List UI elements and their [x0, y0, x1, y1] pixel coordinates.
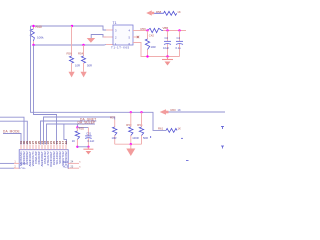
svg-text:10uF: 10uF — [163, 46, 169, 50]
node junction bus2 x83.5 — [82, 44, 84, 46]
svg-text:R61: R61 — [158, 127, 164, 131]
wire T1 pin4 stub — [133, 30, 148, 32]
wire T1 pin6 route down — [133, 43, 180, 57]
power arrow below R56 — [69, 72, 75, 78]
IC pin names vertical — [19, 151, 68, 167]
wire left edge W4 — [0, 117, 24, 144]
svg-text:50R: 50R — [143, 136, 148, 140]
wire T1 pin2 net with power arrow — [91, 35, 113, 39]
resistor R40 — [30, 25, 44, 45]
svg-text:1K: 1K — [72, 139, 75, 143]
svg-text:R55: R55 — [79, 126, 85, 130]
node junction C4 top — [178, 29, 180, 31]
resistor R57 bottom-left — [110, 116, 117, 145]
resistor R54b — [137, 112, 148, 144]
wire R55-C31 bottom — [77, 146, 88, 148]
stray mark 2 — [181, 137, 183, 139]
transformer T1 — [111, 21, 133, 50]
net label DA_MODE — [3, 129, 21, 144]
svg-text:100k: 100k — [37, 36, 44, 40]
power arrow below R54 — [81, 72, 87, 78]
wire A from IC pin to R57 — [44, 117, 115, 145]
ground symbol — [162, 57, 173, 66]
node junction R40 top — [32, 25, 34, 27]
wire top bus1 — [31, 26, 107, 30]
IC top pin numbers — [19, 141, 68, 144]
wire left edge W5 — [0, 121, 27, 144]
wire T1 pin5 stub with no-connect — [133, 36, 138, 38]
svg-text:R54: R54 — [78, 52, 84, 56]
node junction R55 bottom — [76, 146, 78, 148]
svg-text:10R: 10R — [112, 136, 117, 140]
power arrow down — [126, 144, 135, 156]
capacitor C31 — [85, 128, 94, 147]
svg-text:C42: C42 — [149, 34, 155, 38]
IC right pin NC3 — [63, 165, 82, 169]
wire bottom bus of three resistors — [115, 143, 142, 145]
svg-text:100R: 100R — [132, 136, 138, 140]
wire branch to IC pin16 staircase — [64, 124, 67, 145]
capacitor C2 — [163, 31, 171, 57]
svg-text:0.1uF: 0.1uF — [87, 139, 94, 143]
svg-text:NC4: NC4 — [63, 160, 69, 164]
svg-text:NC3: NC3 — [63, 165, 69, 169]
node junction R42 bottom — [146, 55, 148, 57]
wire T1 pin3 stub — [106, 29, 113, 31]
svg-text:R40: R40 — [36, 25, 42, 29]
resistor R54 — [78, 52, 92, 72]
node junction R55 top — [76, 126, 78, 128]
resistor R55 — [72, 126, 85, 147]
svg-text:1K: 1K — [177, 10, 181, 14]
svg-text:T1-1T-X65: T1-1T-X65 — [111, 46, 130, 50]
net label DA_SLEEP wire — [47, 121, 97, 145]
wire from right edge — [169, 111, 226, 113]
node junction R40 bottom — [32, 44, 34, 46]
right edge mark 2 — [221, 146, 224, 149]
svg-text:T1: T1 — [113, 21, 117, 25]
node junction busR R53 — [130, 111, 132, 113]
svg-text:C4: C4 — [177, 36, 181, 40]
svg-text:R60: R60 — [171, 108, 177, 112]
svg-text:1K: 1K — [178, 127, 182, 131]
resistor R42 vertical — [145, 31, 155, 57]
resistor R53 — [126, 112, 138, 144]
svg-text:16: 16 — [64, 141, 68, 144]
svg-text:10R: 10R — [151, 45, 156, 49]
wire branch R55 top — [76, 124, 78, 128]
stray mark 1 — [150, 136, 152, 138]
net label DA_GNET wire — [41, 117, 97, 144]
power arrow at x88 — [87, 38, 96, 43]
svg-text:C2: C2 — [165, 36, 169, 40]
svg-text:R56: R56 — [67, 52, 73, 56]
svg-text:DA_MODE: DA_MODE — [3, 129, 20, 133]
svg-text:0.1u: 0.1u — [176, 46, 182, 50]
wire R56 branch vertical — [71, 26, 73, 56]
node junction busR R54b — [140, 111, 142, 113]
wire T1 pin1 stub — [106, 44, 113, 46]
node junction ground — [166, 55, 168, 57]
wire vertical2 bus2 down then to IC pin — [34, 45, 57, 145]
IC U5 box — [19, 150, 68, 172]
node junction R59 left — [146, 29, 148, 31]
wire R54 branch vertical — [83, 45, 85, 56]
resistor R58 horizontal — [154, 10, 181, 15]
resistor R61 horizontal — [158, 127, 181, 133]
svg-text:CIN+: CIN+ — [20, 162, 26, 166]
offpage arrow left — [160, 109, 169, 115]
node junction C31 bottom — [87, 146, 89, 148]
svg-text:R54: R54 — [137, 123, 143, 127]
svg-text:DA_SLEEP: DA_SLEEP — [78, 121, 97, 125]
right edge mark 1 — [221, 127, 224, 130]
wire caps top bus — [163, 30, 186, 32]
IC left pin 2 wire — [0, 165, 26, 170]
svg-text:C31: C31 — [86, 132, 91, 136]
IC left pin 1 wire — [0, 161, 27, 166]
IC top pin stubs — [21, 145, 66, 150]
node junction bus1 x72 — [71, 25, 73, 27]
svg-text:1K: 1K — [178, 108, 181, 112]
svg-text:R57: R57 — [110, 116, 116, 120]
svg-text:R59: R59 — [141, 27, 147, 31]
node junction bottom bus — [130, 143, 132, 145]
capacitor C4 — [176, 31, 184, 57]
ground symbol bottom — [83, 147, 93, 155]
stray mark 3 — [186, 160, 189, 162]
IC right pin NC4 — [63, 160, 82, 164]
wire long vertical bus1-left to busR — [31, 26, 167, 130]
offpage arrow R58 — [146, 10, 161, 15]
resistor R59 horizontal — [141, 27, 164, 33]
no-connect X on pin5 — [137, 36, 139, 38]
wire bus2 — [34, 44, 107, 47]
svg-text:50R: 50R — [87, 63, 92, 67]
wire to cap C31 — [77, 127, 88, 129]
svg-text:10R: 10R — [75, 63, 80, 67]
resistor R56 — [67, 52, 80, 72]
svg-text:CIN-: CIN- — [20, 166, 25, 169]
node junction C2 top — [166, 29, 168, 31]
